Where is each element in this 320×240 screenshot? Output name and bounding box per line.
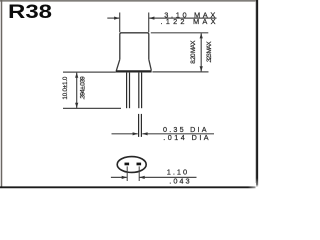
bottom view can outline (ellipse) — [117, 157, 146, 173]
dimension text 10.0±1.0 (rotated) — [62, 76, 69, 99]
dimension line 3.10 MAX width, left arrow — [107, 17, 119, 20]
svg-text:.122 MAX: .122 MAX — [161, 17, 216, 26]
svg-text:R38: R38 — [8, 1, 52, 23]
lead right continuation below break — [139, 114, 142, 137]
svg-text:.323 MAX: .323 MAX — [206, 41, 213, 63]
lead right (front view) — [139, 73, 142, 109]
extension lines for pin spacing dimension — [127, 166, 139, 181]
svg-text:10.0±1.0: 10.0±1.0 — [62, 76, 69, 99]
svg-text:.394±.039: .394±.039 — [80, 76, 87, 100]
dimension line 0.35 DIA lead diameter, left arrow — [112, 132, 138, 135]
dimension line 1.10 pin spacing, left arrow — [111, 176, 127, 179]
svg-text:1.10: 1.10 — [167, 168, 187, 177]
title R38 — [8, 1, 52, 23]
dimension text 3.10 MAX — [164, 10, 215, 19]
dimension text 8.20 MAX (rotated) — [190, 40, 197, 64]
bottom view pin 1 — [125, 163, 130, 166]
dimension line 3.10 MAX width, right arrow and leader — [149, 17, 216, 20]
dimension text .122 MAX — [161, 17, 216, 26]
extension lines left for lead length dimension — [63, 72, 121, 108]
dimension line 0.35 DIA lead diameter, right arrow and leader — [142, 132, 214, 135]
svg-text:.043: .043 — [169, 177, 189, 186]
svg-text:8.20 MAX: 8.20 MAX — [190, 40, 197, 64]
bottom view pin 2 — [137, 163, 142, 166]
dimension text 0.35 DIA — [163, 125, 207, 134]
can body outline (front view) — [120, 33, 149, 60]
dimension text .043 — [169, 177, 189, 186]
dimension text .014 DIA — [163, 133, 209, 142]
dimension line 10.0 lead length with arrows — [75, 72, 78, 108]
extension lines right for height dimension — [151, 33, 209, 72]
dimension line 8.20 MAX height with arrows — [200, 33, 203, 72]
dimension text 1.10 — [167, 168, 187, 177]
dimension line 1.10 pin spacing, right arrow and leader — [139, 176, 196, 179]
lead left (front view) — [127, 73, 130, 109]
extension lines above can for width dimension — [120, 13, 149, 33]
dimension text .394±.039 (rotated) — [80, 76, 87, 100]
drawing frame border — [0, 0, 260, 194]
dimension text .323 MAX (rotated) — [206, 41, 213, 63]
can base flange — [116, 59, 152, 71]
